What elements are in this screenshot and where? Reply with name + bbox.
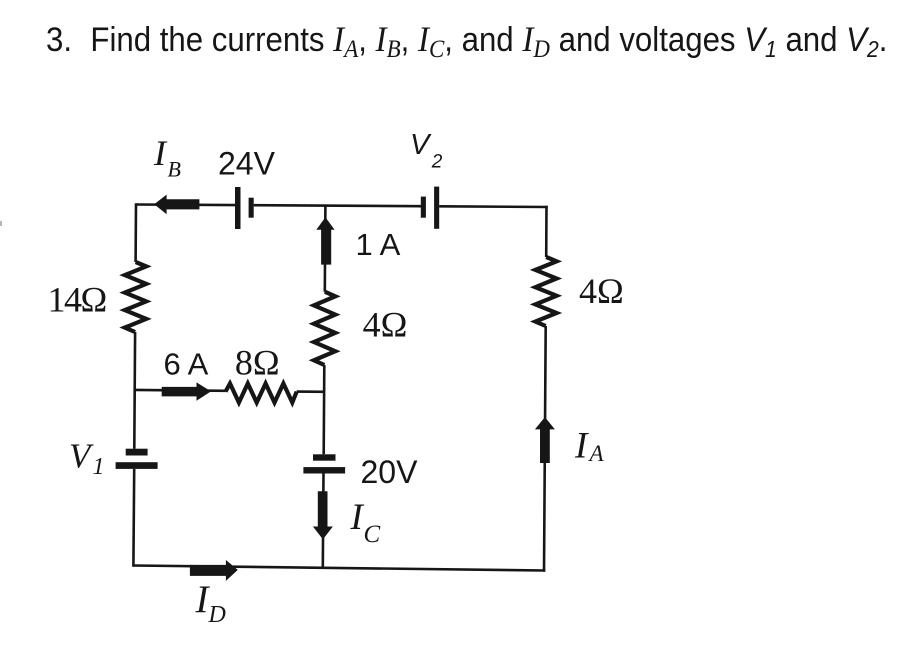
wire middle vertical upper segment (323, 206, 326, 292)
current arrow 6A (pointing right) (162, 382, 211, 400)
svg-text:8Ω: 8Ω (235, 343, 280, 383)
resistor 4ohm (middle branch) (314, 292, 335, 365)
battery 20V short plate (313, 454, 336, 460)
wire top-right segment (439, 205, 548, 208)
svg-text:A: A (588, 441, 605, 466)
svg-text:V: V (69, 437, 94, 476)
battery 24V short plate (249, 198, 254, 218)
battery V2 short plate (421, 197, 426, 218)
svg-text:V: V (410, 129, 432, 161)
wire middle vertical mid segment (322, 365, 325, 454)
wire right lower segment (544, 326, 546, 572)
battery V2 long plate (434, 187, 439, 229)
svg-text:I: I (350, 497, 365, 538)
resistor 4ohm (right branch) (535, 257, 556, 326)
svg-text:14Ω: 14Ω (48, 280, 106, 320)
svg-text:4Ω: 4Ω (363, 305, 408, 345)
svg-text:20V: 20V (361, 454, 419, 490)
wire left middle segment (133, 332, 136, 449)
svg-text:1 A: 1 A (356, 227, 401, 262)
svg-text:I: I (574, 426, 589, 467)
wire left lower segment (132, 469, 135, 567)
wire left upper segment (134, 203, 137, 262)
wire middle horizontal right segment (297, 390, 325, 393)
title: problem statement (46, 20, 887, 64)
resistor 8ohm (middle horizontal branch) (226, 384, 297, 403)
svg-text:4Ω: 4Ω (579, 271, 624, 311)
current arrow 1A (pointing up) (316, 217, 334, 264)
svg-text:3.Find the currents IA, IB, IC: 3.Find the currents IA, IB, IC, and ID a… (46, 20, 887, 64)
wire top-middle segment (254, 205, 421, 206)
svg-text:1: 1 (93, 454, 105, 480)
svg-text:24V: 24V (218, 146, 276, 182)
svg-text:6 A: 6 A (164, 347, 209, 382)
battery 24V long plate (235, 187, 241, 229)
current arrow IC (pointing down) (313, 491, 333, 539)
wire middle vertical lower segment (321, 474, 324, 569)
current arrow IA (pointing up) (535, 417, 555, 463)
current arrow IB (pointing left) (154, 195, 199, 215)
resistor 14ohm (left branch) (125, 262, 146, 332)
svg-text:2: 2 (431, 151, 443, 172)
svg-text:D: D (208, 602, 226, 628)
wire right upper segment (545, 206, 548, 257)
current arrow ID (pointing right) (190, 560, 238, 581)
wire top-left segment (136, 203, 235, 206)
svg-text:C: C (364, 521, 381, 548)
battery V1 long plate (116, 462, 158, 469)
speck artifact at left edge (0, 221, 2, 226)
wire middle horizontal left segment (135, 389, 226, 392)
svg-text:I: I (153, 133, 168, 173)
wire bottom segment (133, 566, 545, 571)
svg-text:B: B (168, 157, 181, 182)
battery V1 short plate (126, 449, 148, 456)
battery 20V long plate (303, 467, 345, 473)
